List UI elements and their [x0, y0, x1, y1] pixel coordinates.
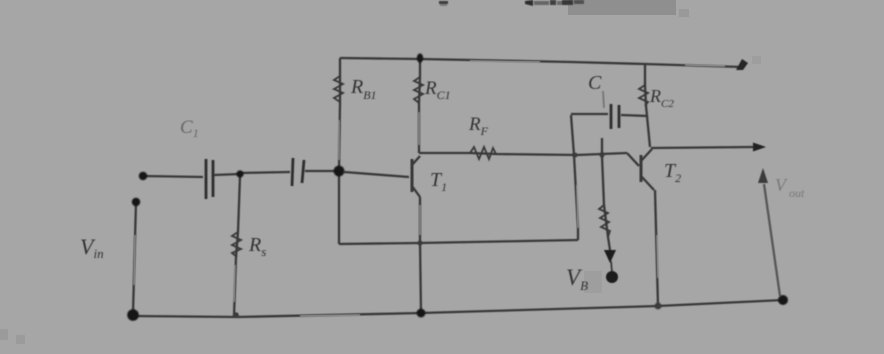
stray mark below C label [603, 91, 604, 108]
wire node B down to feedback line [338, 171, 340, 244]
wire bottom ground rail [133, 300, 783, 317]
resistor RB1 branch wire [339, 58, 340, 171]
transistor T1 [344, 156, 420, 197]
node ground rail end dot [778, 295, 788, 305]
node feedback/emitter crossing dot [417, 240, 422, 245]
wire feedback right vertical up to RF node [571, 115, 578, 240]
resistor RC2 zigzag [639, 85, 648, 106]
wire VB bias branch [602, 138, 610, 250]
resistor RB1 zigzag [334, 76, 343, 102]
resistor RF zigzag [470, 147, 496, 159]
faded wire highlights (photo unevenness) [134, 61, 725, 316]
wire C2 to node B [305, 170, 336, 172]
wire input port vertical [133, 202, 136, 313]
node input terminal dot [139, 172, 147, 180]
wire T1 emitter to ground [420, 197, 421, 313]
resistor VB zigzag [599, 205, 610, 237]
node T1 emitter ground dot [417, 309, 426, 318]
resistor Rs zigzag [232, 232, 241, 257]
node input port lower dot [132, 198, 140, 206]
wire node A to C2 [240, 172, 290, 173]
resistor RC1 zigzag [414, 77, 423, 103]
node Rs ground junction dot [233, 312, 239, 318]
node A dot [236, 170, 243, 177]
capacitor C1 plates [206, 159, 213, 199]
node T2 emitter ground dot [655, 303, 662, 310]
cropped text smudges at top edge [439, 0, 584, 6]
wire output line [651, 147, 753, 148]
output arrowhead [753, 143, 766, 152]
resistor RC1 branch wire [419, 59, 420, 153]
capacitor C2 plates [292, 158, 304, 186]
transistor T2 [627, 149, 654, 190]
wire top VCC rail [340, 58, 742, 67]
node B dot [334, 166, 345, 177]
wire feedback bottom line [339, 240, 578, 244]
wire T2 emitter to ground [655, 190, 658, 306]
node VB branch crossing dot [600, 153, 605, 158]
wire C1 to node A [214, 174, 240, 175]
VB arrow down [604, 250, 616, 263]
svg-text:C: C [588, 72, 602, 94]
node input ground dot [127, 309, 139, 321]
wire capacitor C top line left [571, 113, 608, 115]
resistor Rs branch wire [234, 176, 240, 316]
wire capacitor C top line right [621, 115, 650, 147]
resistor RC2 branch wire [645, 64, 647, 116]
node RF crossing dot [573, 153, 578, 158]
capacitor C plates [611, 104, 619, 129]
wire VB arrow to dot [611, 261, 612, 272]
Vout measure arrow [758, 168, 768, 183]
VB terminal dot [606, 271, 618, 283]
VCC rail end arrow [736, 59, 748, 70]
node RC1 top rail dot [417, 53, 423, 62]
wire input top: terminal to C1 [143, 176, 203, 177]
wire RF line: T1 collector to T2 base [419, 153, 627, 155]
